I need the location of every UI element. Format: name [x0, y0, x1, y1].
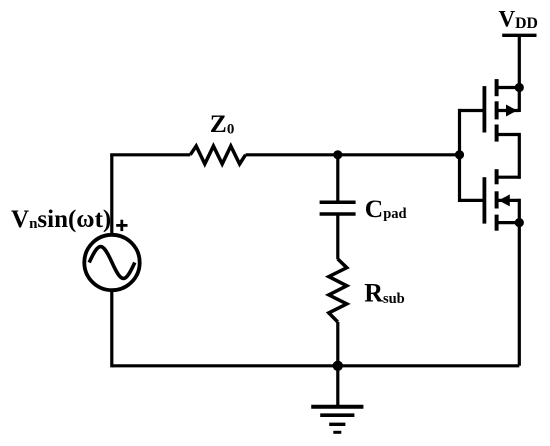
wire bottom rail — [112, 364, 520, 367]
node ground junction — [333, 361, 343, 371]
wire pad node to Cpad — [336, 155, 339, 202]
wire gate input vertical — [458, 109, 461, 202]
wire Rsub to bottom rail — [336, 322, 339, 366]
wire source to bottom rail — [110, 289, 113, 367]
resistor Z0 — [190, 146, 245, 164]
svg-text:Vnsin(ωt): Vnsin(ωt) — [11, 206, 111, 233]
wire VDD to PMOS drain — [518, 35, 521, 112]
supply rail VDD bar — [502, 34, 536, 37]
transistor M1 PMOS — [484, 79, 519, 142]
wire NMOS gate lead — [460, 199, 485, 202]
wire NMOS source to bottom rail — [518, 199, 521, 366]
capacitor Cpad — [320, 202, 356, 214]
node pad junction — [333, 150, 342, 159]
wire source to top rail — [110, 155, 113, 236]
resistor Rsub — [329, 259, 347, 322]
ground — [311, 366, 363, 433]
node gate input junction — [455, 150, 464, 159]
wire top rail left — [112, 155, 191, 156]
transistor M2 NMOS — [484, 169, 519, 231]
wire PMOS gate lead — [460, 109, 485, 112]
plus polarity mark — [116, 220, 127, 231]
node PMOS drain junction — [515, 83, 524, 92]
wire PMOS source to NMOS drain — [518, 133, 521, 179]
wire top rail right — [246, 153, 460, 156]
voltage source VS — [84, 235, 139, 290]
wire Cpad to Rsub — [336, 214, 339, 259]
node NMOS source junction — [515, 218, 524, 227]
